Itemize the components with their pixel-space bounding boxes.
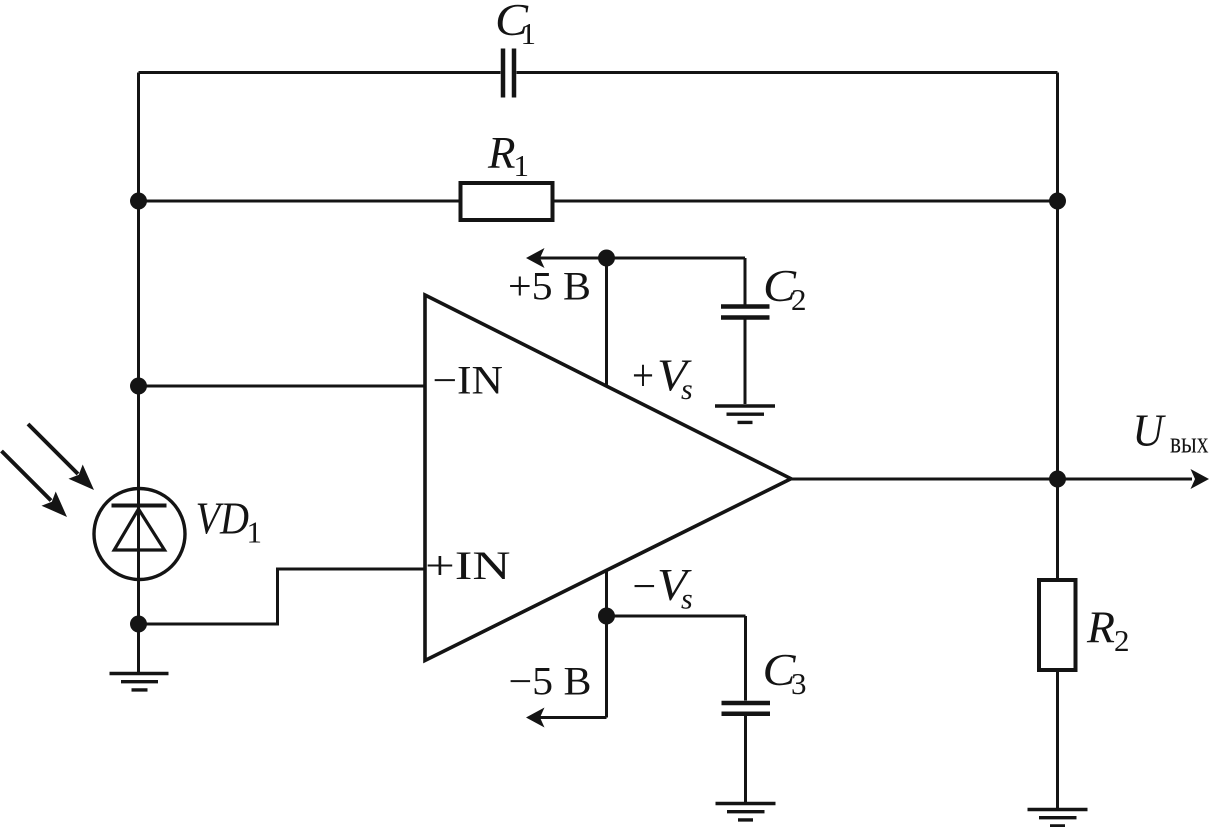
svg-text:R: R [1086, 603, 1115, 653]
svg-text:s: s [681, 373, 693, 406]
wire: top feedback branch, C1 to right vertical [517, 71, 1058, 74]
node: photodiode cathode junction [130, 616, 147, 633]
op-amp U1 triangle [425, 295, 791, 661]
arrowhead: +5 V [526, 248, 545, 268]
capacitor C1 plates [503, 49, 514, 98]
capacitor C2 top lead [744, 258, 747, 305]
svg-text:1: 1 [247, 515, 263, 550]
ground: photodiode [110, 674, 169, 690]
wire: R1 feedback row [139, 200, 1058, 203]
arrowhead: -5 V [526, 708, 545, 728]
node: output junction [1049, 471, 1066, 488]
light arrow 2 (lower) shaft [2, 451, 52, 501]
resistor R2 [1039, 580, 1076, 670]
svg-text:1: 1 [514, 148, 530, 183]
arrowhead: output Uout [1191, 469, 1210, 489]
capacitor C2 plates [721, 307, 770, 318]
node: R1 left junction [130, 193, 147, 210]
capacitor C3 bottom lead [744, 716, 747, 802]
op-amp label +IN [425, 543, 511, 588]
wire: +5 V arrow lead [531, 257, 607, 260]
photodiode VD1 circle [94, 489, 185, 580]
wire: right vertical bus (output to R2, ground) [1056, 73, 1059, 809]
ground: R2 / output divider [1028, 810, 1088, 826]
label -5 B [509, 659, 592, 704]
svg-text:VD: VD [196, 494, 250, 544]
svg-text:вых: вых [1170, 425, 1209, 460]
capacitor C3 top lead [744, 616, 747, 701]
svg-text:U: U [1133, 406, 1166, 456]
capacitor C3 plates [722, 703, 771, 714]
light arrow 1 (upper) shaft [28, 424, 78, 474]
op-amp label -IN [433, 357, 504, 402]
label +5 B [508, 264, 591, 309]
capacitor C2 bottom lead [744, 320, 747, 405]
wire: op-amp output [791, 478, 1192, 481]
wire: -5 V arrow lead [531, 716, 607, 719]
resistor R2 label [1086, 603, 1130, 659]
photodiode VD1 label [196, 494, 263, 550]
svg-text:+IN: +IN [425, 543, 511, 588]
wire: -Vs rail to C3 [607, 615, 746, 618]
svg-text:R: R [487, 128, 516, 178]
node: +Vs junction [598, 250, 615, 267]
ground: C2 [715, 406, 775, 422]
capacitor C2 label [763, 261, 807, 317]
capacitor C1 value label [495, 0, 536, 51]
wire: -IN input [139, 385, 426, 388]
svg-text:−5 В: −5 В [509, 659, 592, 704]
svg-text:2: 2 [791, 282, 807, 317]
svg-text:−: − [633, 564, 657, 610]
node: inverting input junction [130, 378, 147, 395]
light arrow 1 head [69, 465, 95, 491]
photodiode VD1 cathode bar [112, 504, 167, 508]
op-amp label -Vs [633, 560, 693, 616]
photodiode VD1 anode triangle [114, 509, 164, 550]
op-amp label +Vs [632, 351, 693, 407]
capacitor C3 label [763, 645, 807, 701]
wire: +5 V rail to C2 [607, 257, 746, 260]
resistor R1 label [487, 128, 529, 183]
svg-text:1: 1 [521, 16, 537, 51]
ground: C3 [716, 804, 776, 820]
svg-text:s: s [681, 583, 693, 616]
resistor R1 [461, 183, 553, 220]
label U_vyh [1133, 406, 1209, 460]
svg-text:3: 3 [791, 666, 807, 701]
wire: +IN input (stepped) [139, 569, 426, 624]
wire: +Vs supply pin [605, 258, 608, 386]
wire: left vertical bus (inverting input / photodiode branch) [137, 73, 140, 673]
svg-text:−IN: −IN [433, 357, 504, 402]
wire: top feedback branch, left segment to C1 [139, 71, 501, 74]
node: R1 right junction [1049, 193, 1066, 210]
svg-text:+: + [632, 351, 654, 401]
svg-text:2: 2 [1114, 623, 1130, 658]
wire: -Vs supply pin down to -5 V arrow [605, 571, 608, 718]
svg-text:+5 В: +5 В [508, 264, 591, 309]
light arrow 2 head [42, 492, 68, 518]
node: -Vs junction [598, 608, 615, 625]
